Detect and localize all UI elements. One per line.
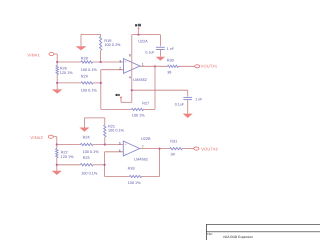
label R24 <box>83 135 90 139</box>
svg-text:0.1uF: 0.1uF <box>175 103 185 107</box>
op-amp U22B <box>123 141 139 156</box>
svg-text:File:: File: <box>207 232 213 236</box>
svg-text:VIN#2: VIN#2 <box>30 135 43 140</box>
svg-text:4: 4 <box>129 76 131 80</box>
svg-text:U22B: U22B <box>141 137 151 141</box>
svg-text:LM4562: LM4562 <box>134 157 148 161</box>
wire inverting tap ch2 <box>57 164 105 166</box>
junction inverting ch2 <box>104 164 106 166</box>
wire gnd top-left ch1 <box>81 34 101 46</box>
label R33 <box>128 167 135 171</box>
svg-text:7: 7 <box>142 145 144 149</box>
pin 2 <box>119 67 121 71</box>
net label VOUT#2 <box>201 146 218 151</box>
svg-text:100 1%: 100 1% <box>132 113 146 117</box>
svg-text:LM4562: LM4562 <box>133 78 147 82</box>
value R30 39 <box>167 71 171 75</box>
net label VIN#2 <box>30 135 43 140</box>
resistor R22 <box>56 149 58 158</box>
wire R22 stem <box>56 145 58 171</box>
junction R19 bottom <box>100 61 102 63</box>
label R22 <box>61 151 68 155</box>
junction input ch1 <box>56 61 58 63</box>
op-amp U22A <box>124 59 140 74</box>
pin 6 <box>119 149 121 153</box>
wire input drop ch1 <box>56 54 58 62</box>
svg-text:+: + <box>125 142 127 146</box>
label R28 <box>81 56 88 60</box>
resistor R26 <box>56 66 58 75</box>
value R24 100 0.1% <box>83 150 100 154</box>
wire R21 stem <box>104 118 106 145</box>
svg-text:100 0.1%: 100 0.1% <box>108 129 125 133</box>
ground GND1 <box>76 46 87 50</box>
svg-text:120 1%: 120 1% <box>61 155 75 159</box>
svg-text:100 0.1%: 100 0.1% <box>81 68 98 72</box>
label U22B <box>141 137 151 141</box>
svg-text:1 nF: 1 nF <box>195 98 203 102</box>
wire V- loop <box>121 97 132 103</box>
wire V- rail ch1 <box>132 89 188 91</box>
label U22A <box>138 39 148 43</box>
junction input ch2 <box>56 143 58 145</box>
capacitor C36 bypass V- <box>183 90 192 113</box>
label R31 <box>170 140 177 144</box>
label C36 right <box>195 98 203 102</box>
svg-text:100 1%: 100 1% <box>128 181 142 185</box>
junction V+ feed <box>137 34 139 36</box>
junction output ch1 <box>154 65 156 67</box>
svg-text:0.1uF: 0.1uF <box>145 50 155 54</box>
ground GND4 under C36 <box>183 114 193 118</box>
svg-text:R31: R31 <box>170 140 177 144</box>
title block frame <box>206 224 320 240</box>
wire inverting tap ch1 <box>57 82 101 84</box>
resistor R29 <box>81 82 93 84</box>
label R30 <box>167 59 174 63</box>
label R27 <box>142 101 149 105</box>
port P1 input <box>49 52 57 55</box>
value R28 100 0.1% <box>81 68 98 72</box>
resistor R31 <box>170 147 183 149</box>
wire feedback bottom ch1 <box>101 108 155 110</box>
ground GND3 under C35 <box>156 57 166 61</box>
wire gnd top ch2 <box>84 118 104 128</box>
ground GND2 <box>52 89 63 93</box>
value R25 100 0.1% <box>81 171 98 175</box>
resistor R19 <box>99 37 101 51</box>
label LM4562 ch2 <box>134 157 148 161</box>
svg-text:R27: R27 <box>142 101 149 105</box>
pin 7 <box>142 145 144 149</box>
svg-text:2: 2 <box>119 67 121 71</box>
svg-text:R33: R33 <box>128 167 135 171</box>
svg-text:VOUT#1: VOUT#1 <box>201 64 218 69</box>
junction V- pin4 <box>131 89 133 91</box>
svg-text:R26: R26 <box>60 66 67 70</box>
value R22 120 1% <box>61 155 75 159</box>
pin 4 <box>129 76 131 80</box>
label R25 <box>83 156 90 160</box>
svg-text:100 0.1%: 100 0.1% <box>83 150 100 154</box>
junction R22 bottom <box>56 164 58 166</box>
port P2 output ch1 <box>195 65 200 68</box>
power +5V symbol <box>135 24 141 35</box>
svg-text:3: 3 <box>119 59 121 63</box>
svg-text:1 nF: 1 nF <box>167 47 175 51</box>
svg-text:8: 8 <box>129 54 131 58</box>
pin 1 <box>142 63 144 67</box>
svg-text:120 1%: 120 1% <box>60 71 74 75</box>
label R21 <box>108 124 115 128</box>
title block File label <box>207 232 213 236</box>
wire V+ rail ch1 <box>132 34 161 36</box>
svg-text:R25: R25 <box>83 156 90 160</box>
wire inverting line ch2 <box>105 152 124 177</box>
svg-text:R21: R21 <box>108 124 115 128</box>
wire noninverting line ch2 <box>57 144 124 146</box>
svg-text:U22A: U22A <box>138 39 148 43</box>
power -5V symbol <box>116 94 123 99</box>
pin 5 <box>119 142 121 146</box>
wire input drop ch2 <box>56 137 58 145</box>
label LM4562 ch1 <box>133 78 147 82</box>
label R19 <box>104 39 111 43</box>
value R21 100 0.1% <box>108 129 125 133</box>
value 0.1uF C35 <box>145 50 155 54</box>
junction inverting ch1 <box>100 82 102 84</box>
value R19 100 0.1% <box>104 43 121 47</box>
wire R26 stem <box>56 62 58 89</box>
resistor R21 <box>104 125 106 137</box>
svg-text:100 0.1%: 100 0.1% <box>81 171 98 175</box>
net label VOUT#1 <box>201 64 218 69</box>
svg-text:R30: R30 <box>167 59 174 63</box>
junction R26 bottom <box>56 82 58 84</box>
port P4 output ch2 <box>194 147 199 150</box>
label C35 right <box>167 47 175 51</box>
svg-text:6: 6 <box>119 149 121 153</box>
svg-text:-: - <box>125 69 127 73</box>
svg-text:+: + <box>125 60 127 64</box>
junction R21 bottom <box>104 143 106 145</box>
value R31 39 <box>171 153 175 157</box>
value R33 100 1% <box>128 181 142 185</box>
resistor R30 <box>168 65 179 67</box>
ground GND6 <box>52 171 62 175</box>
svg-text:-: - <box>125 152 127 156</box>
svg-text:100 0.1%: 100 0.1% <box>81 89 98 93</box>
resistor R24 <box>81 143 94 145</box>
svg-text:R19: R19 <box>104 39 111 43</box>
svg-text:100 0.1%: 100 0.1% <box>104 43 121 47</box>
value R29 100 0.1% <box>81 89 98 93</box>
capacitor C35 bypass V+ <box>156 35 165 57</box>
value 0.1uF C36 <box>175 103 185 107</box>
wire inverting line ch1 <box>101 70 124 110</box>
svg-text:39: 39 <box>171 153 175 157</box>
resistor R27 <box>131 108 143 110</box>
resistor R25 <box>81 164 94 166</box>
value R27 100 1% <box>132 113 146 117</box>
wire output ch1 <box>140 65 195 67</box>
resistor R28 <box>81 61 93 63</box>
wire feedback bottom ch2 <box>105 176 160 178</box>
pin 3 <box>119 59 121 63</box>
title block name <box>223 235 253 239</box>
ground GND5 <box>79 128 89 132</box>
wire R19 stem <box>100 34 102 62</box>
label R26 <box>60 66 67 70</box>
wire feedback riser ch2 <box>159 149 161 177</box>
wire V+ pin8 riser <box>131 35 133 63</box>
svg-text:VOUT#2: VOUT#2 <box>201 146 218 151</box>
label R29 <box>81 74 88 78</box>
wire output ch2 <box>140 148 194 150</box>
wire pin4 drop <box>131 62 133 102</box>
pin 8 <box>129 54 131 58</box>
svg-text:5: 5 <box>119 142 121 146</box>
svg-text:R28: R28 <box>81 56 88 60</box>
svg-text:VIN#1: VIN#1 <box>27 53 40 58</box>
wire feedback riser ch1 <box>154 66 156 109</box>
resistor R33 <box>129 175 141 177</box>
value R26 120 1% <box>60 71 74 75</box>
junction output ch2 <box>158 148 160 150</box>
wire noninverting line ch1 <box>57 61 123 63</box>
net label VIN#1 <box>27 53 40 58</box>
svg-text:R24: R24 <box>83 135 90 139</box>
svg-text:39: 39 <box>167 71 171 75</box>
svg-text:R29: R29 <box>81 74 88 78</box>
svg-text:VGA RGB Expansion: VGA RGB Expansion <box>223 235 253 239</box>
port P3 input ch2 <box>48 135 57 138</box>
